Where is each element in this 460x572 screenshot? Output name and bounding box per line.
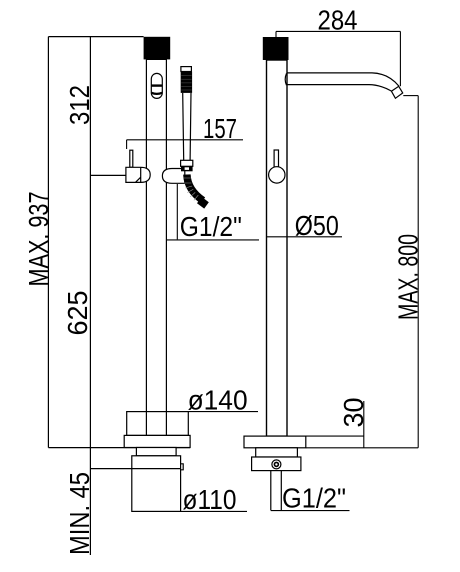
handshower bracket [181, 160, 193, 166]
handshower tube [183, 93, 191, 160]
extension line for 30 (flange top) [306, 435, 364, 437]
diverter knob [151, 73, 162, 98]
leader underline G1/2 (right) [271, 510, 350, 512]
handle knob circle [269, 167, 285, 183]
lever stick [130, 150, 133, 167]
G1/2 leader underline (left view) [166, 239, 259, 241]
svg-text:MAX. 937: MAX. 937 [23, 192, 54, 287]
base plate (left) [124, 435, 190, 447]
leader line ø110 [181, 510, 247, 512]
step line at spout tip [403, 95, 418, 97]
svg-text:G1/2": G1/2" [180, 211, 242, 242]
neck below floor (right) [256, 448, 298, 457]
cylinder ø110 (left) [132, 456, 181, 512]
floor line under left view [48, 447, 190, 449]
top extension line (left view) [48, 36, 143, 38]
svg-text:MIN. 45: MIN. 45 [64, 472, 95, 555]
dimension line MAX. 937 (left vertical) [47, 37, 49, 448]
spout aerator tip [391, 86, 402, 98]
G1/2 nipple line (left view) [176, 184, 178, 239]
dimension 284 line [276, 30, 400, 32]
cap (left view, black) [144, 37, 171, 60]
bracket lock (black) [181, 166, 193, 171]
column (left view) [146, 59, 166, 411]
dimension line MAX. 800 [417, 96, 419, 448]
svg-text:30: 30 [338, 398, 369, 428]
handshower head top [181, 67, 192, 72]
dimension line 312/625 (vertical at x=90) [89, 37, 91, 555]
dimension 30 line [363, 401, 365, 448]
screw circle [272, 460, 281, 469]
hose end cap [197, 197, 209, 209]
dimension 284 right extension (down to spout tip) [399, 31, 401, 86]
cylinder side screw [181, 464, 184, 470]
svg-text:284: 284 [318, 5, 358, 36]
base flange cone (left) [127, 412, 189, 436]
lever hub [126, 167, 150, 182]
handshower grip (hatched) [181, 72, 192, 93]
shower holder hub [162, 169, 184, 184]
inlet pipe (right) [271, 471, 282, 511]
neck below floor (left) [136, 448, 176, 456]
column (right view) [267, 60, 288, 436]
dimension 157 line [127, 139, 243, 141]
svg-text:312: 312 [64, 85, 95, 125]
svg-text:157: 157 [203, 113, 237, 144]
svg-text:ø110: ø110 [183, 484, 237, 515]
svg-text:G1/2": G1/2" [282, 483, 346, 514]
spout [287, 73, 399, 86]
svg-text:ø140: ø140 [188, 384, 248, 415]
flange plate (right) [244, 436, 306, 448]
cap (right view, black) [263, 37, 289, 60]
nut (right) [252, 457, 301, 471]
leader underline Ø50 [266, 236, 342, 238]
cylinder cap line [132, 468, 181, 470]
shower hose (flex) [187, 175, 203, 201]
dimension 157 tick [126, 140, 128, 149]
column lines through flange cone [146, 412, 166, 436]
svg-text:Ø50: Ø50 [295, 210, 339, 241]
spout root weld arc [285, 73, 286, 85]
extension line MIN.45 bottom [90, 468, 132, 470]
leader line ø140 [188, 411, 258, 413]
dimension 284 left tick [275, 31, 277, 37]
svg-text:625: 625 [62, 291, 93, 336]
svg-text:MAX. 800: MAX. 800 [393, 234, 424, 320]
floor line right [306, 447, 418, 449]
extension line at lever height (312/625 split) [90, 174, 126, 176]
handle stem (right view) [274, 150, 278, 167]
